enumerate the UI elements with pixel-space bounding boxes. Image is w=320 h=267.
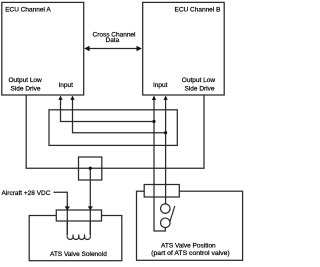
wire: junction to solenoid right terminal — [89, 168, 91, 235]
svg-text:(part of ATS control valve): (part of ATS control valve) — [151, 250, 230, 257]
svg-text:Output Low: Output Low — [182, 77, 216, 84]
junction dot node B2 — [164, 131, 167, 134]
svg-text:ATS Valve Position: ATS Valve Position — [161, 242, 216, 249]
ATS Valve Position box — [137, 191, 243, 260]
wire: rectangle loop bus — [49, 110, 177, 146]
svg-text:ATS Valve Solenoid: ATS Valve Solenoid — [50, 251, 107, 258]
wire: node B1 to channel A input 1 — [61, 96, 155, 121]
wire segments through solenoid bar — [67, 209, 90, 235]
arrowhead channel B input 1 — [152, 96, 156, 100]
junction box — [79, 157, 102, 180]
svg-text:ECU Channel B: ECU Channel B — [175, 7, 221, 14]
cross channel data double arrow — [84, 46, 142, 51]
ATS Valve Solenoid box — [29, 216, 122, 261]
svg-text:ECU Channel A: ECU Channel A — [5, 7, 51, 14]
svg-text:Side Drive: Side Drive — [185, 85, 215, 92]
ECU Channel A box — [2, 2, 84, 95]
valve position contact circle 2 — [161, 218, 171, 228]
svg-text:Side Drive: Side Drive — [11, 85, 41, 92]
wire: aircraft +28 VDC feed to solenoid left terminal — [54, 192, 68, 235]
junction dot on output bus — [89, 167, 92, 170]
valve position contact circle 1 — [161, 204, 171, 214]
arrowhead channel A input 2 — [70, 96, 74, 100]
arrowhead channel A input 1 — [58, 96, 62, 100]
svg-text:Input: Input — [153, 82, 168, 89]
arrowhead drive into solenoid bar — [88, 206, 93, 210]
wire segments through valve bar — [154, 185, 166, 198]
svg-text:Data: Data — [106, 37, 120, 44]
wire: channel A output low side drive down, bus to channel B output — [26, 96, 204, 169]
wire: valve position contact 1 to channel B input 2 — [165, 96, 167, 204]
svg-text:Aircraft +28 VDC: Aircraft +28 VDC — [2, 190, 51, 197]
svg-text:Output Low: Output Low — [9, 77, 43, 84]
valve switch lever — [170, 206, 175, 221]
connector bar on solenoid — [56, 210, 101, 221]
wire: node B2 to channel A input 2 — [73, 96, 166, 133]
junction dot node B1 — [152, 120, 155, 123]
connector bar on valve position — [144, 185, 179, 198]
arrowhead channel B input 2 — [163, 96, 167, 100]
arrowhead +28VDC into solenoid bar — [65, 206, 70, 210]
svg-text:Input: Input — [59, 82, 74, 89]
ECU Channel B box — [143, 2, 225, 95]
solenoid coil — [67, 235, 90, 239]
wire: valve position contact 2 to channel B input 1 — [154, 96, 165, 231]
